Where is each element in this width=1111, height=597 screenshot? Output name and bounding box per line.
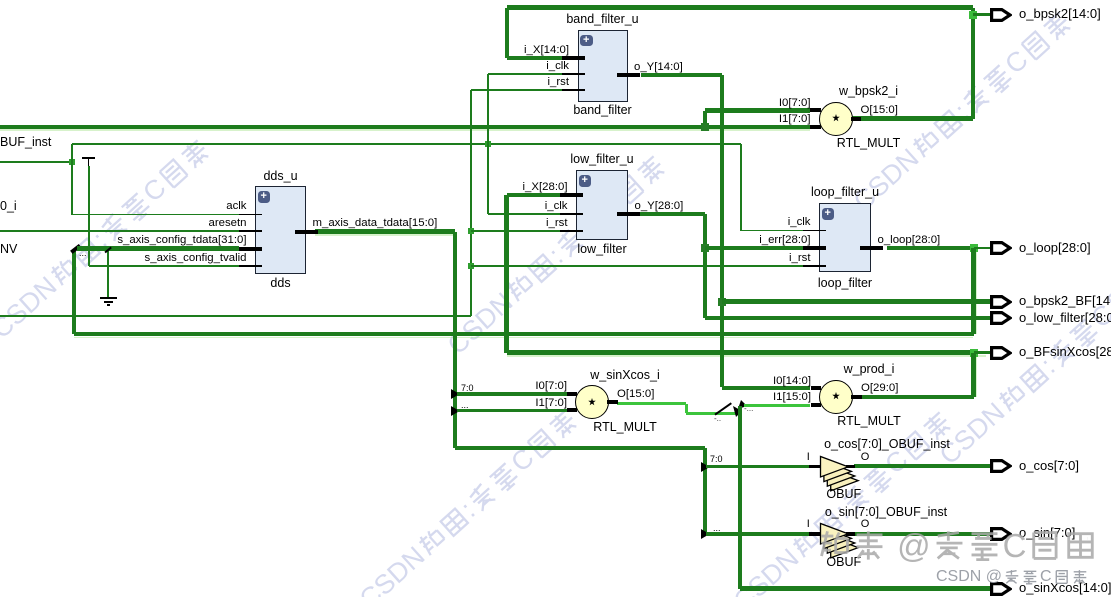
wire reset riser bbox=[470, 90, 471, 316]
wire feedback bottom bbox=[74, 332, 974, 336]
wire clk to aclk bbox=[71, 162, 72, 215]
block dds_u bbox=[255, 186, 306, 274]
wire w_sinXcos O bright bbox=[617, 402, 686, 405]
multiplier w_bpsk2_i bbox=[819, 102, 853, 136]
multiplier w_prod_i bbox=[819, 380, 853, 414]
port o_bpsk2_BF bbox=[990, 295, 1012, 309]
port o_sin bbox=[990, 527, 1012, 541]
label 0_i bbox=[0, 199, 17, 213]
block band_filter_u bbox=[578, 30, 628, 102]
wire glow BFsinXcos bbox=[507, 355, 986, 357]
rip arrow o_sin bbox=[701, 529, 710, 539]
wire low i_clk bbox=[488, 213, 560, 214]
wire o_sin obuf in bbox=[706, 532, 809, 536]
wire dds m_axis out bbox=[315, 229, 455, 233]
buffer o_sin OBUF bbox=[809, 532, 820, 536]
label dots prod I1 bbox=[744, 404, 753, 413]
label dots config bend bbox=[79, 248, 87, 258]
wire o_bpsk2_BF run bbox=[722, 299, 990, 303]
wire glow feedback bbox=[74, 337, 973, 339]
junction I0/I1 bbox=[701, 123, 709, 131]
wire low o_Y riser bbox=[703, 214, 707, 318]
wire clk riser loop bbox=[740, 144, 741, 231]
wire loop i_clk bbox=[741, 230, 803, 231]
wire o_loop out bbox=[887, 246, 974, 250]
wire w_prod I0 bbox=[722, 386, 810, 390]
label NV bbox=[0, 242, 17, 256]
rip arrow sinXcos down bbox=[731, 406, 743, 418]
wire glow dds out bbox=[315, 234, 455, 236]
port o_sinXcos bbox=[990, 582, 1012, 596]
wire band o_Y out bbox=[641, 73, 722, 77]
wire loop i_rst bbox=[471, 265, 803, 266]
wire o_bpsk2 riser up bbox=[971, 8, 975, 119]
wire w_bpsk2 I0 bbox=[705, 108, 810, 112]
wire o_sinXcos riser bbox=[738, 406, 742, 589]
wire low i_X entry bbox=[507, 193, 561, 197]
wire low i_rst bbox=[471, 230, 560, 231]
wire clk riser left bbox=[71, 144, 72, 162]
junction clk left bbox=[69, 159, 75, 165]
rip arrow I1 sinXcos bbox=[451, 406, 460, 416]
wire low o_Y out bbox=[639, 212, 705, 216]
wire gnd rip tick bbox=[104, 246, 111, 252]
wire BFsinXcos port stub bbox=[974, 351, 991, 354]
junction rst loop bbox=[468, 263, 474, 269]
wire clk riser filters bbox=[487, 74, 488, 214]
wire feedback bend diag bbox=[70, 243, 81, 253]
wire w_prod O riser bbox=[971, 353, 975, 398]
wire clk distribution bbox=[72, 143, 741, 144]
block low_filter_u bbox=[576, 170, 628, 240]
ground bbox=[100, 297, 117, 299]
label dots o_sin rip bbox=[713, 523, 721, 533]
port o_cos bbox=[990, 459, 1012, 473]
wire I0 branch bbox=[703, 111, 707, 128]
wire w_prod I1 bright bbox=[744, 404, 810, 407]
wire w_bpsk2 O to riser bbox=[852, 116, 973, 120]
wire main input bus bbox=[0, 125, 810, 130]
buffer o_cos OBUF bbox=[809, 465, 820, 469]
wire o_loop riser bbox=[971, 248, 975, 334]
label BUF_inst bbox=[0, 135, 51, 149]
wire reset input bbox=[0, 315, 471, 316]
wire o_bpsk2 top run bbox=[507, 5, 973, 9]
wire o_sin out bbox=[854, 532, 990, 536]
wire band o_Y riser down bbox=[720, 75, 724, 387]
wire w_sinXcos I1 bbox=[457, 409, 567, 413]
wire aresetn bbox=[0, 230, 239, 231]
watermark zhihu big bbox=[818, 529, 1097, 562]
wire band i_X riser bbox=[505, 8, 509, 59]
wire loop i_err bbox=[705, 246, 803, 250]
wire band i_X entry bbox=[507, 56, 562, 60]
port o_BFsinXcos bbox=[990, 346, 1012, 360]
wire w_prod O out bbox=[861, 395, 974, 399]
wire BFsinXcos run bbox=[507, 350, 974, 354]
wire config tdata run bbox=[77, 246, 239, 250]
block loop_filter_u bbox=[819, 203, 871, 272]
wire o_loop port stub bbox=[974, 247, 991, 250]
port o_loop bbox=[990, 241, 1012, 255]
junction o_bpsk2_BF bbox=[718, 298, 726, 306]
wire band i_rst bbox=[471, 89, 562, 90]
power vcc bbox=[82, 157, 95, 159]
wire clk input bbox=[0, 161, 72, 162]
wire low i_X riser bbox=[504, 195, 508, 353]
wire o_cos out bbox=[854, 464, 990, 468]
wire gnd riser bbox=[107, 250, 108, 297]
label 7:0 o_cos rip bbox=[710, 454, 723, 464]
wire sinXcos jog bbox=[685, 404, 688, 414]
wire o_cos obuf in bbox=[706, 465, 809, 469]
wire aclk run bbox=[72, 214, 239, 215]
port o_bpsk2 bbox=[990, 8, 1012, 22]
wire band i_clk bbox=[488, 73, 562, 74]
rip arrow o_cos bbox=[701, 462, 710, 472]
wire o_low_filter run bbox=[705, 316, 990, 320]
wire glow o_loop riser bbox=[976, 248, 978, 334]
wire feedback riser left bbox=[72, 251, 76, 334]
junction BFsinXcos bbox=[970, 349, 978, 357]
wire dds bus obuf riser bbox=[703, 448, 707, 534]
wire w_sinXcos I0 bbox=[457, 392, 567, 396]
label 7:0 sinXcos rip bbox=[461, 383, 474, 393]
junction o_bpsk2 bbox=[969, 11, 977, 19]
label dots sinXcos rip bbox=[461, 400, 469, 410]
wire tvalid run bbox=[89, 265, 239, 266]
rip arrow I0 sinXcos bbox=[451, 389, 460, 399]
wire vcc to tvalid bbox=[88, 166, 89, 266]
watermark diagonal CSDN texts bbox=[0, 135, 214, 343]
rip arrow sinXcos right bbox=[738, 400, 747, 409]
label dots sinXcos merge bbox=[714, 414, 721, 423]
wire sinXcos bright run bbox=[686, 412, 738, 415]
wire dds bus riser bbox=[453, 232, 457, 449]
junction o_loop bbox=[970, 244, 978, 252]
junction rst low bbox=[468, 228, 474, 234]
wire o_bpsk2 port stub bbox=[973, 13, 990, 16]
wire dds bus lower bbox=[455, 446, 705, 450]
rip slash sinXcos bbox=[714, 402, 731, 415]
watermark csdn gray bbox=[936, 569, 1088, 585]
port o_low_filter bbox=[990, 311, 1012, 325]
wire glow main bus bbox=[0, 129, 810, 131]
wire glow prod riser bbox=[976, 352, 978, 397]
junction clk mid bbox=[485, 141, 491, 147]
multiplier w_sinXcos_i bbox=[575, 385, 609, 419]
junction i_err bbox=[701, 244, 709, 252]
wire o_sinXcos bottom bbox=[740, 586, 990, 590]
